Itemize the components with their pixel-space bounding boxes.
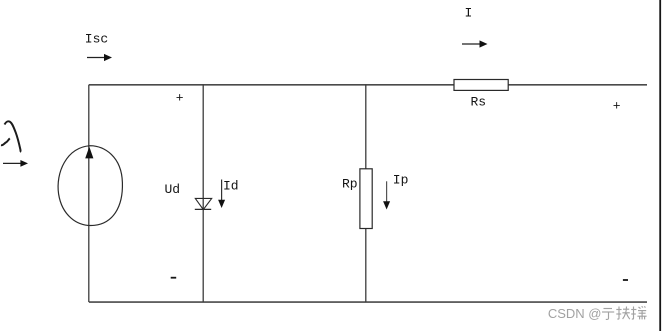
resistor Rp: [360, 169, 372, 229]
watermark char fu: [616, 307, 630, 320]
svg-text:Ip: Ip: [393, 172, 409, 187]
svg-text:Id: Id: [223, 179, 239, 194]
right border: [659, 0, 661, 331]
wire Rp branch: [365, 85, 367, 303]
svg-text:CSDN @: CSDN @: [548, 306, 602, 321]
current source Iph: [58, 146, 122, 226]
arrow I direction: [462, 40, 488, 47]
svg-text:Ud: Ud: [165, 182, 181, 197]
svg-text:Rp: Rp: [342, 177, 358, 192]
arrow Isc direction: [87, 54, 112, 61]
node - diode cathode polarity: [171, 277, 177, 279]
resistor Rs: [454, 80, 508, 91]
light arrow: [3, 160, 28, 167]
arrow Ip direction: [383, 181, 390, 209]
wire diode branch: [202, 85, 204, 303]
wire left branch: [88, 85, 90, 303]
svg-text:+: +: [613, 99, 621, 114]
svg-text:Rs: Rs: [471, 95, 487, 110]
wire bottom bus: [89, 301, 647, 303]
terminal - output negative: [623, 279, 628, 281]
svg-text:Isc: Isc: [85, 32, 108, 47]
svg-text:+: +: [176, 91, 184, 106]
arrow Id direction: [218, 180, 225, 209]
svg-text:I: I: [465, 5, 473, 20]
watermark char yu: [602, 309, 614, 320]
light photon symbol: [5, 121, 21, 152]
diode D: [195, 198, 212, 209]
wire top bus: [89, 84, 647, 86]
watermark char yao: [631, 306, 646, 319]
